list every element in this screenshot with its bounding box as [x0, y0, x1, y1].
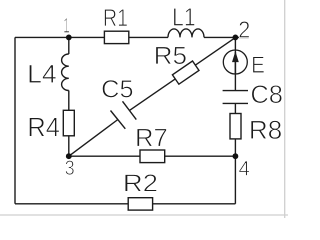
label E	[253, 57, 264, 73]
resistor R8	[230, 114, 241, 139]
wire diagonal C5 through R5 to node2	[129, 38, 235, 111]
node 3	[66, 153, 72, 159]
resistor R7	[140, 150, 165, 163]
source E circle	[223, 50, 247, 74]
node 1	[66, 35, 72, 41]
inductor L4	[62, 54, 69, 91]
wire C8 to R8	[234, 103, 236, 113]
label C8	[252, 85, 282, 103]
label 4	[239, 161, 249, 176]
inductor L1	[168, 29, 204, 38]
wire top-left to L1 start	[15, 36, 168, 38]
node 2	[233, 35, 239, 41]
label R8	[251, 121, 281, 140]
label R1	[105, 9, 128, 26]
label R2	[125, 174, 157, 191]
label L1	[174, 8, 195, 25]
wire left vertical	[14, 37, 16, 203]
resistor R1	[104, 31, 128, 43]
label 1	[64, 18, 69, 32]
label C5	[102, 80, 132, 98]
source E arrow	[232, 51, 239, 62]
wire diagonal node3 to C5	[69, 120, 118, 157]
capacitor C8 plate 1	[223, 90, 248, 92]
label R5	[156, 47, 186, 64]
border line bottom	[0, 214, 288, 216]
wire L4 to node3	[68, 91, 70, 157]
label 2	[239, 21, 249, 37]
resistor R5	[172, 61, 199, 84]
label 3	[65, 160, 74, 175]
wire node3 to node4	[69, 155, 236, 157]
capacitor C8 plate 2	[223, 102, 248, 104]
label R4	[29, 118, 59, 137]
wire node4 down to bottom	[234, 156, 236, 204]
wire bottom	[15, 203, 235, 205]
wire L1 end to right stub	[204, 36, 249, 38]
wire node2 down through E to C8	[234, 37, 236, 90]
capacitor C5 plate 1	[111, 111, 126, 129]
wire node1 down to L4	[68, 37, 70, 54]
wire R8 to node4	[234, 139, 236, 156]
label L4	[29, 65, 56, 83]
label R7	[137, 129, 166, 147]
resistor R2	[128, 198, 152, 210]
capacitor C5 plate 2	[123, 101, 137, 119]
node 4	[233, 153, 239, 159]
resistor R4	[63, 110, 74, 136]
border line right	[284, 0, 286, 218]
